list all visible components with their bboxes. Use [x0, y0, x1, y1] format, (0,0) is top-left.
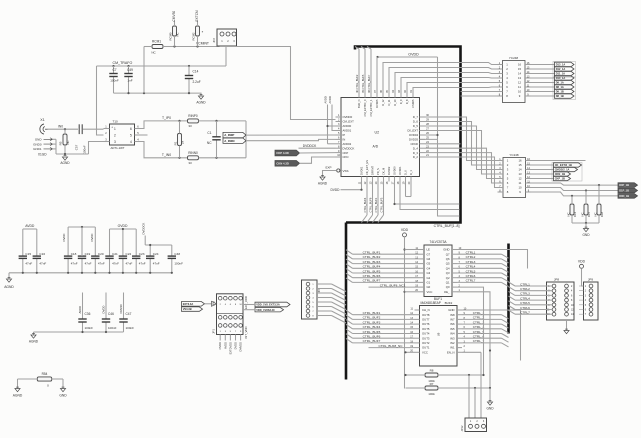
svg-text:CK_M: CK_M [382, 168, 386, 175]
svg-text:D_12: D_12 [381, 99, 385, 106]
svg-text:OUT5: OUT5 [422, 327, 430, 331]
svg-text:1: 1 [114, 127, 116, 131]
capacitor C57 [78, 124, 80, 134]
wire OVDD feed right pins [437, 57, 439, 139]
svg-text:A_IN0N: A_IN0N [224, 139, 234, 143]
ground AGND cap trio [31, 335, 36, 338]
resistor R18 [597, 204, 601, 215]
ground AGND left of R54 [15, 389, 20, 392]
svg-text:100nF: 100nF [85, 326, 94, 330]
svg-text:EN_N: EN_N [447, 350, 454, 354]
net flag VDD_1V8S3.4C [255, 308, 284, 312]
wire BUF1 GND pin [457, 250, 528, 269]
wires U2 to YC240 B [425, 117, 498, 161]
svg-text:AVDD: AVDD [223, 342, 227, 349]
svg-text:OVDD: OVDD [408, 52, 419, 56]
capacitor C22 47nF [122, 229, 124, 256]
wire RCM1 left leg [143, 47, 145, 94]
wire X1 shield to ground rail [55, 139, 57, 154]
net flag VS3.3B [182, 307, 203, 311]
junction VDD to VCC [403, 291, 405, 293]
svg-text:CTRL_BUF6: CTRL_BUF6 [363, 335, 381, 339]
svg-text:AGND: AGND [318, 182, 328, 186]
svg-text:C36: C36 [85, 312, 91, 316]
wires CTRL_BUF2/5/7 to bus top [358, 49, 360, 93]
svg-text:VDD_1V8_EXT3.3A: VDD_1V8_EXT3.3A [256, 303, 280, 307]
svg-text:CTRL_BUF7: CTRL_BUF7 [367, 74, 371, 89]
svg-text:CTRL_BUF1: CTRL_BUF1 [374, 197, 378, 212]
capacitor C20 47nF [94, 227, 96, 256]
cap trio ground rail [34, 331, 124, 333]
svg-text:D10_1A: D10_1A [556, 76, 566, 80]
svg-text:CTRL_BUF4: CTRL_BUF4 [363, 197, 367, 212]
svg-text:AGND: AGND [4, 285, 14, 289]
wires BUF1 outputs to bus [457, 253, 502, 255]
svg-text:5: 5 [130, 134, 132, 138]
svg-text:D_0: D_0 [404, 170, 408, 175]
svg-text:VSS: VSS [343, 169, 349, 173]
svg-text:VDD_1V8S3.4C: VDD_1V8S3.4C [256, 308, 275, 312]
svg-text:T_IP0: T_IP0 [162, 116, 171, 120]
ground GND for NC resistors [585, 223, 587, 229]
svg-text:CTRL2: CTRL2 [520, 287, 530, 291]
svg-text:OUT3: OUT3 [422, 336, 430, 340]
flag marker into JP3 [212, 301, 217, 306]
svg-text:CTRL_1: CTRL_1 [473, 311, 485, 315]
capacitor C36 [82, 293, 84, 320]
svg-text:MAX6818EAP: MAX6818EAP [421, 301, 441, 305]
svg-text:C46: C46 [108, 312, 114, 316]
svg-text:CTRL_4: CTRL_4 [473, 325, 485, 329]
svg-text:AGND: AGND [60, 161, 70, 165]
svg-text:CKN: CKN [343, 155, 349, 159]
junction R8 wires [468, 374, 470, 376]
resistor R15 [584, 204, 588, 215]
resistor RCM0 [173, 26, 177, 36]
wire T10 pin5 stub [141, 134, 148, 136]
svg-text:CTRL_BUF6: CTRL_BUF6 [368, 197, 372, 212]
svg-text:DVDD: DVDD [234, 342, 238, 349]
svg-text:U2: U2 [375, 131, 380, 135]
U2 EXP bubble pin [337, 169, 340, 172]
svg-text:GND: GND [486, 407, 494, 411]
svg-text:GND: GND [582, 233, 590, 237]
svg-text:CKN_1B: CKN_1B [555, 172, 566, 176]
svg-text:CTRL7: CTRL7 [520, 311, 530, 315]
svg-text:C7: C7 [112, 68, 116, 72]
svg-text:CKN0: CKN0 [411, 142, 419, 146]
svg-text:CTRL_6: CTRL_6 [473, 335, 485, 339]
connector JP6 [302, 280, 318, 319]
svg-text:CTRL7: CTRL7 [466, 279, 476, 283]
svg-text:YC248: YC248 [509, 153, 519, 157]
ground AGND at EXP [320, 177, 325, 180]
svg-text:CTRL5: CTRL5 [520, 301, 530, 305]
svg-text:AVD01: AVD01 [343, 129, 352, 133]
svg-text:Q3: Q3 [446, 271, 450, 275]
svg-text:G6: G6 [427, 257, 431, 261]
junction rail C14 [188, 92, 190, 94]
capacitor C24 47nF [149, 245, 151, 256]
svg-text:CTRL_BUF6: CTRL_BUF6 [363, 274, 381, 278]
svg-text:ADT1-1WT: ADT1-1WT [111, 146, 125, 150]
svg-text:DMVDD: DMVDD [239, 342, 243, 352]
svg-text:GND1: GND1 [33, 147, 42, 151]
ground rail below R5 [56, 153, 89, 155]
net bracket DVDD caps [68, 226, 95, 228]
staircase wires U2 top to group edge [383, 63, 461, 93]
net bracket OVDD caps [110, 228, 137, 230]
connector JP8 [547, 282, 575, 320]
svg-text:CM_EXTBC_0: CM_EXTBC_0 [363, 99, 367, 117]
svg-text:CM_TRAFO: CM_TRAFO [113, 61, 133, 65]
svg-text:CTRL_BUF4: CTRL_BUF4 [363, 265, 381, 269]
svg-text:47nF: 47nF [25, 261, 32, 265]
svg-text:100nF: 100nF [174, 261, 183, 265]
svg-text:RCM2: RCM2 [192, 32, 196, 40]
svg-text:AVD00: AVD00 [343, 124, 352, 128]
svg-text:D_11: D_11 [387, 99, 391, 106]
svg-text:R54: R54 [42, 372, 48, 376]
svg-text:CTRL_BUF7: CTRL_BUF7 [363, 339, 381, 343]
svg-text:DVD05: DVD05 [375, 99, 379, 108]
net flag A_IN0N [223, 138, 246, 143]
svg-text:4: 4 [130, 140, 132, 144]
svg-text:3: 3 [114, 140, 116, 144]
svg-text:BUF_N: BUF_N [357, 99, 361, 108]
wires JP12 risers [468, 375, 470, 418]
net flag EXT3.3A [182, 302, 205, 307]
svg-text:1nF: 1nF [127, 78, 132, 82]
svg-text:DVDD: DVDD [62, 234, 66, 242]
svg-text:NC: NC [580, 212, 584, 216]
svg-text:OVD01: OVD01 [398, 166, 402, 175]
svg-text:CTRL_BUF4: CTRL_BUF4 [363, 325, 381, 329]
svg-text:DVD03: DVD03 [409, 138, 418, 142]
svg-text:EXT3.3A: EXT3.3A [183, 302, 194, 306]
svg-text:DVDDCK: DVDDCK [141, 223, 145, 235]
svg-text:DVDD: DVDD [90, 234, 94, 242]
resistor R1 [178, 134, 182, 146]
resistor R8 [425, 373, 438, 377]
svg-text:G5: G5 [427, 262, 431, 266]
svg-text:DVD02: DVD02 [387, 166, 391, 175]
capacitor C19 47nF [81, 227, 83, 256]
wire JP2 pin2 down to CM rail [225, 46, 227, 66]
svg-text:14: 14 [518, 168, 522, 172]
svg-text:A_IN0P: A_IN0P [224, 133, 234, 137]
junction NC rail [585, 222, 587, 224]
svg-text:D8_1B: D8_1B [556, 94, 564, 98]
svg-text:74LVC573A: 74LVC573A [430, 240, 448, 244]
wire OVDD rail [378, 56, 438, 58]
svg-text:D_1: D_1 [409, 170, 413, 175]
wire BUF1 Q0 pin [457, 287, 484, 296]
wire T_IN0 [141, 142, 188, 158]
svg-text:C19: C19 [85, 252, 91, 256]
svg-text:Q7: Q7 [446, 252, 450, 256]
svg-text:AGND: AGND [29, 340, 39, 344]
svg-text:47nF: 47nF [112, 261, 119, 265]
svg-text:47nF: 47nF [126, 261, 133, 265]
svg-text:AVDD: AVDD [78, 306, 82, 314]
junction rail RCM1 [143, 92, 145, 94]
svg-text:R14: R14 [573, 211, 577, 217]
junction RCM0 bottom [173, 45, 175, 47]
wires JP6 to bus [317, 283, 332, 285]
wire T_IP0 [141, 121, 188, 129]
svg-text:100nF: 100nF [126, 326, 135, 330]
svg-text:12: 12 [518, 177, 522, 181]
svg-text:13: 13 [518, 172, 522, 176]
connector JP12 [465, 418, 487, 432]
ground AGND below R5 [62, 157, 67, 160]
svg-text:33: 33 [188, 161, 192, 165]
svg-text:CSD05: CSD05 [411, 99, 415, 108]
resistor R14 [570, 204, 574, 215]
svg-text:D11_1A: D11_1A [556, 72, 565, 76]
svg-text:G3: G3 [427, 271, 431, 275]
svg-text:GND: GND [35, 138, 43, 142]
svg-text:14: 14 [518, 72, 522, 76]
wire MAX EN pin [462, 351, 481, 353]
resistor network YC240 A [503, 61, 526, 103]
junction R1 top [178, 120, 180, 122]
svg-text:C47: C47 [126, 312, 132, 316]
svg-text:GND: GND [443, 248, 449, 252]
net flags D outputs YC240 A [553, 62, 576, 78]
wire MAX GND pin [462, 310, 521, 361]
svg-text:YC248: YC248 [509, 56, 519, 60]
svg-text:CTRL_BUF8_NC1: CTRL_BUF8_NC1 [380, 283, 406, 287]
svg-text:RINP0: RINP0 [188, 114, 198, 118]
svg-text:D_10: D_10 [393, 99, 397, 106]
ground GND below JP8 [564, 331, 569, 334]
wire CM_TRAFO vertical to T10 pin2 [97, 66, 104, 135]
svg-text:X1: X1 [40, 118, 44, 122]
resistor RINN0 [188, 156, 199, 160]
svg-text:16: 16 [518, 159, 522, 163]
svg-text:IN2: IN2 [450, 341, 455, 345]
junction R18 top [598, 184, 600, 186]
wire IN0 [48, 128, 79, 130]
svg-text:CK_EXT_EN: CK_EXT_EN [365, 160, 369, 175]
junction VDD to LE [403, 248, 405, 250]
connector X1 [40, 124, 44, 134]
svg-text:D_5: D_5 [413, 124, 419, 128]
svg-text:RINN0: RINN0 [188, 151, 198, 155]
svg-text:OVD04: OVD04 [409, 133, 419, 137]
svg-text:CTRL6: CTRL6 [466, 274, 476, 278]
wire NC resistor ground rail [572, 222, 599, 224]
svg-text:10: 10 [518, 186, 522, 190]
svg-text:11: 11 [519, 181, 522, 185]
svg-text:OUT1: OUT1 [422, 346, 430, 350]
svg-text:JP9: JP9 [588, 277, 594, 281]
capacitor C48 100nF [171, 245, 173, 256]
resistor R54 [37, 377, 52, 381]
svg-text:NC: NC [207, 141, 212, 145]
svg-text:IN5: IN5 [450, 327, 455, 331]
svg-text:Q6: Q6 [446, 257, 450, 261]
svg-text:CTRL4: CTRL4 [466, 265, 476, 269]
junction C1 top [215, 120, 217, 122]
net flags YC240 B outputs [552, 163, 582, 182]
svg-text:G1: G1 [427, 281, 431, 285]
svg-text:G0: G0 [427, 285, 431, 289]
svg-text:CTRL_BUF3: CTRL_BUF3 [379, 197, 383, 212]
svg-text:OUT2: OUT2 [422, 341, 430, 345]
svg-text:D0N_1B: D0N_1B [619, 194, 629, 198]
wires YC240 B pins 9-11 to flags [531, 183, 618, 185]
svg-text:IN: IN [343, 138, 346, 142]
op-amp U2 ADC box [341, 98, 420, 177]
svg-text:CTRL_BUF2: CTRL_BUF2 [363, 255, 381, 259]
svg-text:AGND: AGND [196, 101, 206, 105]
svg-text:C57: C57 [75, 144, 79, 150]
svg-text:CTRL_5: CTRL_5 [473, 330, 485, 334]
capacitor C47 [123, 293, 125, 320]
resistor R7 [425, 386, 438, 390]
svg-text:NC: NC [566, 212, 570, 216]
svg-text:CTRL_BUF3: CTRL_BUF3 [363, 320, 381, 324]
svg-text:2k: 2k [180, 140, 184, 144]
wires CTRL_BUF U2 bottom to bus [366, 182, 368, 216]
svg-text:D_9: D_9 [399, 99, 403, 104]
capacitor C49 [128, 66, 130, 74]
svg-text:NC: NC [176, 32, 180, 36]
svg-text:VCC: VCC [427, 290, 433, 294]
svg-text:OUT8: OUT8 [422, 313, 430, 317]
svg-text:AVDD: AVDD [324, 96, 328, 103]
wires CTRL_BUF to BUF2 [346, 310, 353, 315]
svg-text:C21: C21 [112, 252, 118, 256]
svg-text:Q4: Q4 [446, 266, 450, 270]
svg-text:VDD: VDD [401, 228, 409, 232]
svg-text:D12_1A: D12_1A [556, 67, 566, 71]
svg-text:NC: NC [593, 212, 597, 216]
svg-text:R5: R5 [59, 141, 63, 145]
net bracket DVDDCK caps [145, 244, 172, 246]
bus CTRL_BUF vertical right [507, 244, 510, 334]
svg-text:OUT7: OUT7 [422, 318, 430, 322]
svg-text:C23: C23 [139, 252, 145, 256]
svg-text:C24: C24 [153, 252, 159, 256]
svg-text:100nF: 100nF [83, 145, 87, 154]
wires bus to JP8 [509, 282, 516, 286]
svg-text:G7: G7 [427, 252, 431, 256]
capacitor C18 47nF [67, 227, 69, 256]
svg-text:D_2: D_2 [413, 155, 419, 159]
ground GND right of R54 [60, 389, 65, 392]
svg-text:C49: C49 [127, 68, 133, 72]
junction R7 wires [474, 387, 476, 389]
svg-text:D8_1A: D8_1A [556, 85, 564, 89]
svg-text:33: 33 [188, 124, 192, 128]
svg-text:12: 12 [518, 81, 522, 85]
svg-text:2: 2 [114, 134, 116, 138]
svg-text:DVDDCK: DVDDCK [303, 144, 317, 148]
svg-text:LE: LE [427, 248, 431, 252]
svg-text:D9_1B: D9_1B [556, 90, 564, 94]
svg-text:CTRL_BUF3: CTRL_BUF3 [363, 260, 381, 264]
svg-text:D_8: D_8 [405, 99, 409, 104]
ground AGND for C14 [198, 96, 203, 99]
svg-text:CTRL5: CTRL5 [466, 269, 476, 273]
svg-text:CMOS/2_1A: CMOS/2_1A [555, 168, 570, 172]
svg-text:T_IN0: T_IN0 [162, 153, 171, 157]
svg-text:AVD02: AVD02 [343, 142, 352, 146]
junction C46 rail [105, 331, 107, 333]
group box around ADC [346, 47, 461, 223]
svg-text:CMV30: CMV30 [119, 304, 123, 314]
svg-text:CTRL4: CTRL4 [520, 296, 530, 300]
svg-text:CTRL_BUF5: CTRL_BUF5 [363, 330, 381, 334]
junction R14 top [571, 195, 573, 197]
svg-text:CTRL2: CTRL2 [466, 255, 476, 259]
junction R15 top [585, 189, 587, 191]
svg-text:C18: C18 [71, 252, 77, 256]
wire T10 pin3 to ground rail [89, 142, 104, 155]
svg-text:IN1: IN1 [450, 346, 455, 350]
svg-text:JP1: JP1 [212, 329, 216, 334]
svg-text:CKP_1B: CKP_1B [555, 177, 565, 181]
svg-text:C15: C15 [25, 252, 31, 256]
svg-text:CTRL1: CTRL1 [466, 251, 476, 255]
wires U2 bottom L-shapes right [395, 182, 460, 205]
svg-text:D_6: D_6 [413, 120, 419, 124]
svg-text:CTRL_2: CTRL_2 [473, 316, 485, 320]
svg-text:Q5: Q5 [446, 262, 450, 266]
wire CM_TRAFO rail [97, 65, 227, 67]
svg-text:47nF: 47nF [153, 261, 160, 265]
svg-text:OVDD0: OVDD0 [343, 115, 353, 119]
capacitor C21 47nF [109, 229, 111, 256]
svg-text:G2: G2 [427, 276, 431, 280]
svg-text:CM_EXTBC_1: CM_EXTBC_1 [369, 99, 373, 117]
wire RC ground rail [114, 93, 202, 96]
U2 left pins 1-10 [336, 116, 342, 118]
svg-text:Q0: Q0 [446, 285, 450, 289]
U2 right pins 21-30 [420, 116, 426, 118]
svg-text:IN7: IN7 [450, 318, 455, 322]
svg-text:D9_1A: D9_1A [556, 81, 564, 85]
svg-text:13: 13 [518, 76, 522, 80]
svg-text:CKN 4.3D: CKN 4.3D [276, 161, 289, 165]
svg-text:D_3: D_3 [413, 151, 419, 155]
connector JP2 [217, 29, 237, 46]
capacitor C7 [113, 66, 115, 74]
net flags dark right edge [618, 183, 638, 188]
junction rail C49 [127, 92, 129, 94]
svg-text:Q1: Q1 [446, 281, 450, 285]
junction RCM2 bottom [196, 45, 198, 47]
svg-text:VDD: VDD [578, 259, 586, 263]
capacitor C1 [216, 121, 218, 137]
svg-text:CTRL3: CTRL3 [520, 292, 530, 296]
svg-text:R7: R7 [430, 382, 434, 386]
svg-text:OVDD: OVDD [218, 342, 222, 350]
svg-text:6: 6 [130, 127, 132, 131]
svg-text:CMV30: CMV30 [172, 11, 176, 22]
junction C1 bottom [215, 157, 217, 159]
svg-text:47nF: 47nF [98, 261, 105, 265]
svg-text:DVD01: DVD01 [360, 166, 364, 175]
svg-text:C22: C22 [126, 252, 132, 256]
svg-text:CKP 4.3D: CKP 4.3D [276, 151, 289, 155]
svg-text:C20: C20 [98, 252, 104, 256]
svg-text:DVDDCK: DVDDCK [343, 146, 355, 150]
